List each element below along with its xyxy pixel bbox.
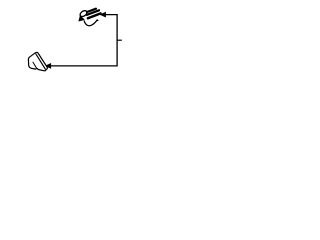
- arrowhead into bottom icon: [45, 64, 50, 69]
- icon: book (bottom): [28, 52, 47, 71]
- tick stub on wire: [117, 39, 122, 41]
- pen stripe 2: [87, 10, 99, 15]
- page curl line: [33, 62, 36, 67]
- grip ring: [79, 9, 88, 17]
- pen nib (solid): [79, 16, 84, 21]
- book outline: [28, 52, 47, 71]
- pen stripe 1: [87, 9, 96, 12]
- pen stripe 3: [88, 13, 101, 18]
- arrowhead into top icon: [100, 12, 105, 17]
- wire: [50, 15, 117, 66]
- hand bottom crescent: [84, 20, 98, 26]
- icon: writing hand with pen (top): [79, 9, 101, 26]
- pages inner line: [36, 54, 46, 69]
